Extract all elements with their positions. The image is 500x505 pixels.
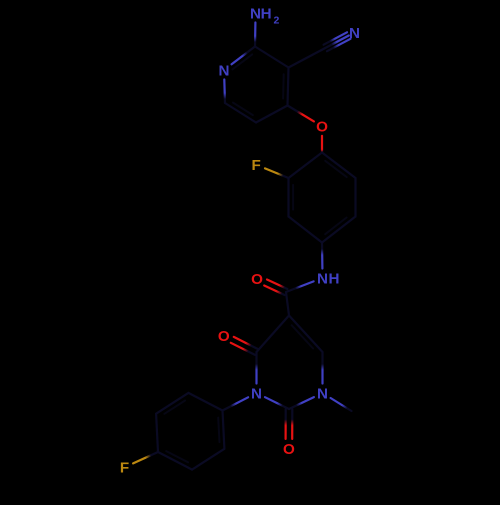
svg-text:F: F [120,460,129,477]
nitrile bond C3-C [289,50,322,68]
wire A5-A6 (double) [156,393,188,414]
amide C=O [267,280,287,290]
fluorophenyl ring: A1-A2 (double) [223,411,225,449]
ether bond C4-O [288,106,314,122]
svg-text:N: N [317,270,328,287]
wire C4-C5 [256,106,288,123]
N-methyl bond [331,398,352,411]
wire N1p-P6 [321,352,323,384]
svg-text:N: N [219,62,230,79]
wire C3-C4 (double) [288,68,289,106]
wire A4-A5 [156,414,158,452]
svg-text:N: N [250,5,261,22]
wire P2-N1p [289,397,314,409]
wire A2-A3 [192,449,224,470]
svg-text:H: H [329,270,340,287]
ketone P2=O [285,409,287,439]
fluoro bond A4-F [133,452,158,463]
wire P4-N3 [255,352,257,384]
svg-text:H: H [261,5,272,22]
wire N3-P2 [265,397,289,409]
svg-text:2: 2 [273,14,279,26]
svg-text:N: N [251,385,262,402]
wire B5-B6 [354,178,356,217]
amide bond NH-C [286,281,314,292]
wire B4-B5 (double) [322,217,356,243]
svg-text:O: O [283,441,295,458]
amino bond C2-NH2 [254,23,257,47]
wire A3-A4 (double) [158,452,192,470]
wire C6-N1 [223,80,226,104]
ether bond O-B1 [321,136,323,153]
wire C2-C3 [255,47,289,68]
wire B2-B3 (double) [287,178,289,217]
svg-text:O: O [316,119,328,136]
wire A6-A1 [188,393,222,411]
N-aryl bond N3-A1 [223,397,249,410]
svg-text:N: N [317,385,328,402]
wire B3-B4 [289,217,323,243]
wire P6-P5 (double) [289,316,323,353]
svg-text:O: O [251,271,263,288]
fluoro bond B2-F [265,168,289,178]
bond amideC-P5 [286,292,289,316]
pyridine ring: bond N1-C2 (double) [232,47,255,65]
benzene ring mid: B1-B2 [289,153,323,179]
svg-text:O: O [218,328,230,345]
ketone P4=O [234,337,258,349]
svg-text:N: N [349,25,360,42]
pyrimidine ring: P5-P4 [257,316,290,353]
nitrile triple bond [322,36,349,51]
wire B6-B1 (double) [322,153,356,179]
wire C5-C6 (double) [225,103,256,123]
anilide bond B4-NH [321,243,324,269]
svg-text:F: F [252,157,261,174]
